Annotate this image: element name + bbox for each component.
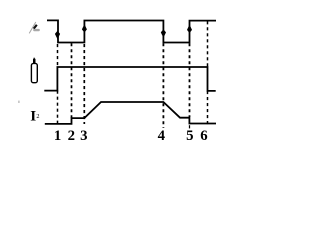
speck far left bbox=[18, 101, 19, 103]
waveform top (valve signal) bbox=[47, 20, 216, 42]
svg-text:1: 1 bbox=[54, 128, 61, 144]
svg-text:4: 4 bbox=[158, 128, 166, 144]
svg-text:3: 3 bbox=[80, 128, 87, 144]
dashed line 4 bbox=[162, 43, 164, 128]
dashed line 5 below baseline bbox=[189, 125, 191, 128]
svg-text:5: 5 bbox=[186, 128, 193, 144]
svg-text:6: 6 bbox=[200, 128, 207, 144]
icon pen (top-left glyph) bbox=[29, 22, 40, 33]
svg-text:2: 2 bbox=[68, 128, 75, 144]
dashed line 5 bbox=[189, 43, 191, 117]
arrow down on edge 4 bbox=[161, 29, 166, 38]
dashed line 2 bbox=[71, 43, 73, 118]
dashed line 6 bbox=[207, 21, 209, 124]
waveform I (current trapezoid) bbox=[45, 102, 216, 124]
svg-text:I: I bbox=[30, 107, 36, 124]
dashed line 1 bbox=[57, 44, 59, 124]
dashed line 3 bbox=[83, 44, 85, 124]
arrow up on edge 5 bbox=[187, 25, 192, 34]
svg-text:2: 2 bbox=[36, 113, 39, 120]
waveform middle (pressure signal) bbox=[44, 67, 215, 91]
arrow up on edge 3 bbox=[82, 24, 87, 33]
arrow down on edge 1 bbox=[55, 31, 60, 40]
icon bottle (middle-left cylinder) bbox=[31, 58, 37, 83]
